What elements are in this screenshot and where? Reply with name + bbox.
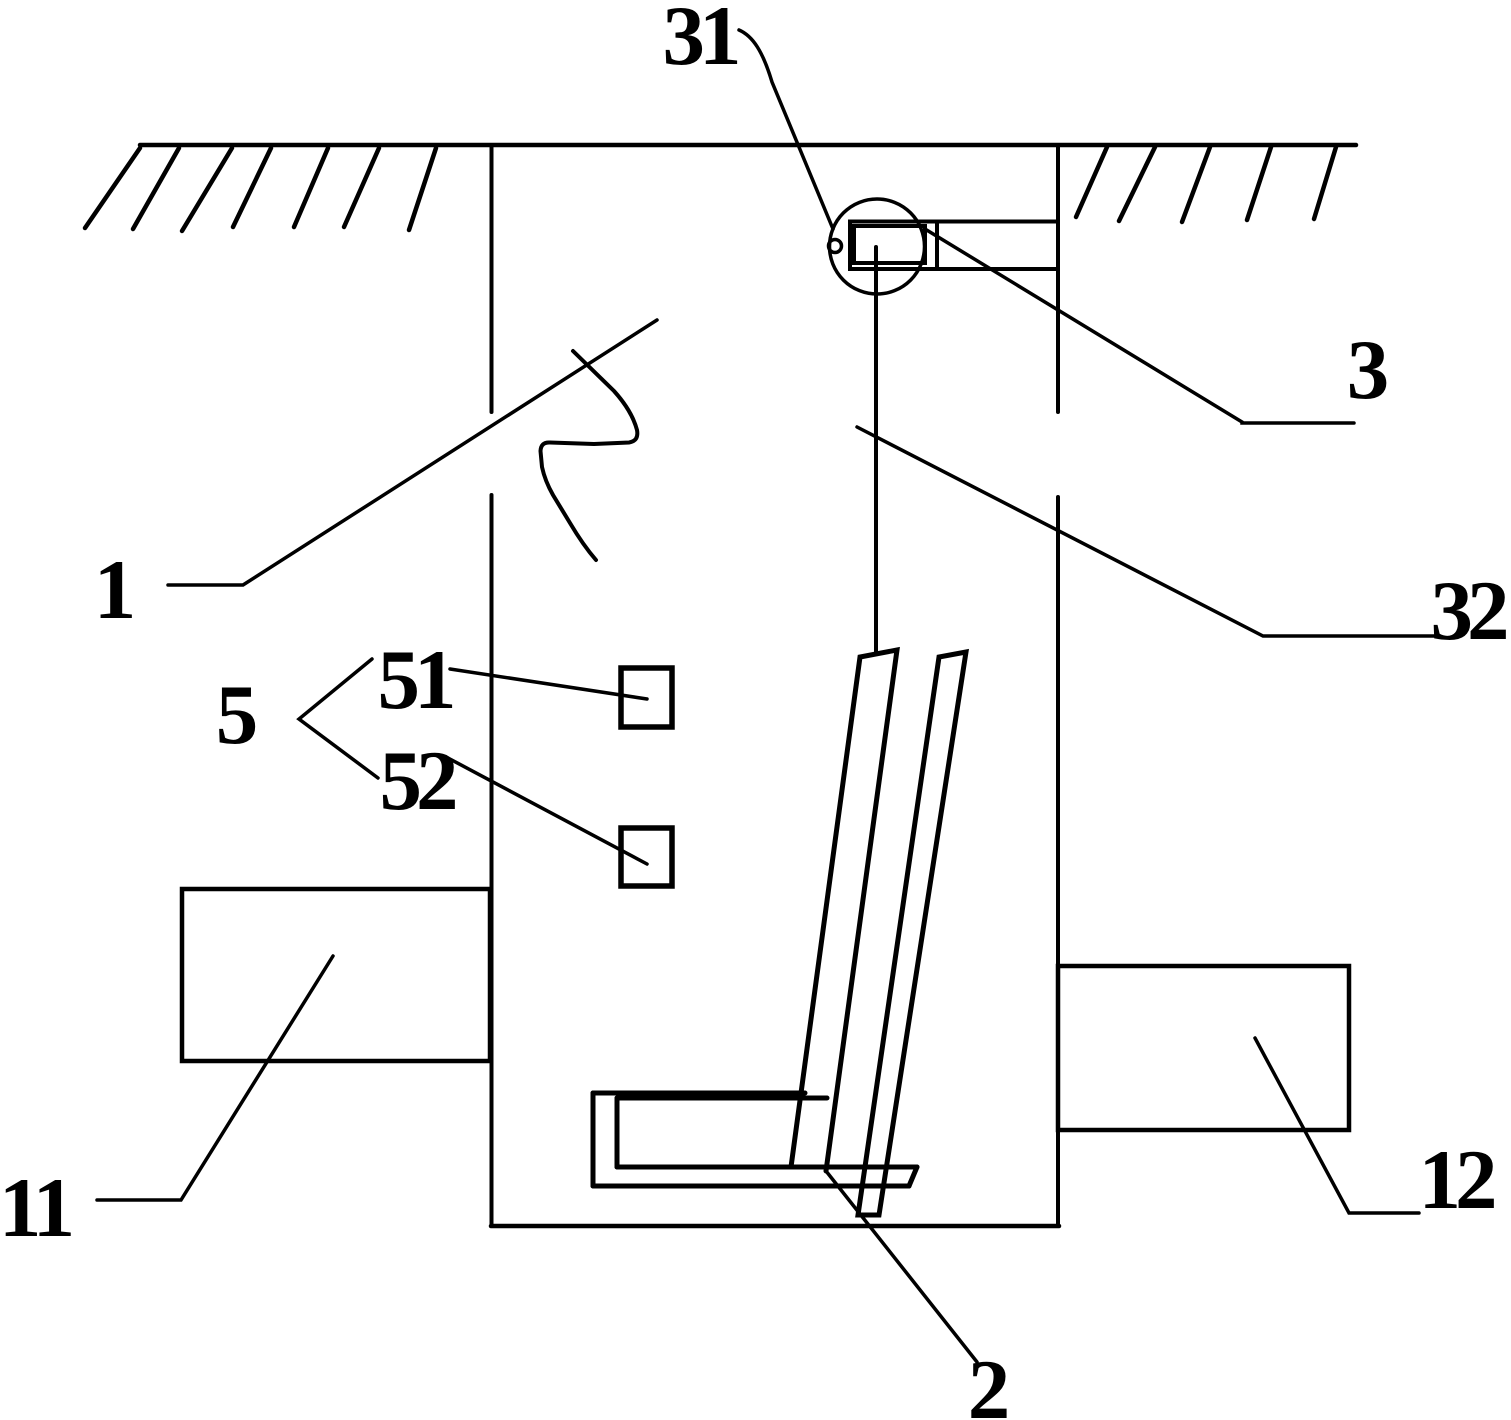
left niche box 11 [182, 889, 490, 1061]
shaft bottom line [491, 1224, 1059, 1229]
leader line 31 [739, 30, 833, 229]
label 2 [968, 1343, 1011, 1420]
label 32 [1431, 564, 1507, 658]
leader line 32 [857, 427, 1437, 636]
svg-text:2: 2 [968, 1343, 1011, 1420]
sensor square 52 [621, 828, 672, 886]
label 1 [94, 543, 137, 637]
leader line 1 [168, 320, 657, 585]
shaft right wall [1056, 145, 1060, 1226]
label 51 [378, 633, 454, 727]
ground hatching right [1076, 147, 1336, 222]
svg-text:3: 3 [1347, 323, 1390, 417]
label 3 [1347, 323, 1390, 417]
svg-text:11: 11 [0, 1161, 72, 1255]
leader line 11 [97, 956, 333, 1200]
break squiggle on wall 1 [541, 351, 638, 560]
ground hatching left [85, 148, 436, 231]
svg-text:52: 52 [380, 734, 456, 828]
leader line 12 [1255, 1038, 1419, 1213]
svg-text:5: 5 [216, 668, 259, 762]
leader line 2 [826, 1171, 977, 1362]
hoist housing box 3 at top [850, 222, 1058, 270]
svg-text:51: 51 [378, 633, 454, 727]
tilted rod right with tip (part of grille 2) [858, 652, 966, 1215]
svg-text:31: 31 [663, 0, 739, 83]
detail circle 31 [829, 199, 925, 294]
ground surface line [140, 143, 1356, 148]
label 52 [380, 734, 456, 828]
label 31 [663, 0, 739, 83]
leader line 51 [450, 669, 647, 699]
svg-text:12: 12 [1419, 1133, 1495, 1227]
bottom bracket channel [593, 1093, 917, 1186]
tilted rod left (part of grille 2) [791, 650, 897, 1171]
right niche box 12 [1058, 966, 1349, 1130]
leader fork 5 [299, 659, 378, 778]
label 11 [0, 1161, 72, 1255]
leader line 3 [925, 229, 1354, 423]
svg-text:1: 1 [94, 543, 137, 637]
label 5 [216, 668, 259, 762]
leader line 52 [448, 758, 647, 864]
sensor square 51 [621, 668, 672, 727]
svg-text:32: 32 [1431, 564, 1507, 658]
hanging wire rope 32 [874, 247, 878, 653]
label 12 [1419, 1133, 1495, 1227]
shaft left wall (part 1) [490, 145, 494, 1226]
